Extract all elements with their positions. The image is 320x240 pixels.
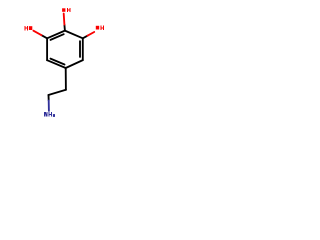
bond C2-OH left (red half): [33, 31, 41, 36]
bond C1-OH top (red half): [63, 14, 66, 25]
bond C3-C4 bottom-left (double, inner): [51, 59, 65, 65]
benzene ring: [47, 31, 83, 68]
label OH top: O: [62, 8, 65, 12]
label OH right: H: [101, 26, 104, 30]
bond C1-C6 top-right: [65, 31, 83, 39]
bond C6-C5 right edge (double, inner): [79, 41, 81, 57]
bond C5-C4 bottom-right: [66, 60, 83, 68]
bond C2-C3 left edge: [46, 38, 48, 60]
label HO left: O: [29, 26, 32, 30]
bond C6-C5 right edge (double, outer): [82, 38, 84, 60]
bond C6-OH right (black half): [83, 36, 88, 39]
bond C3-C4 bottom-left (double, outer): [47, 60, 66, 68]
bond C4-C7 chain vertical: [65, 68, 67, 90]
bond C8-N (black half): [48, 95, 50, 101]
bond C1-OH top (black half): [63, 25, 66, 31]
bond C8-N (blue half): [48, 101, 50, 111]
label NH2: subscript 2: [53, 114, 55, 117]
label HO left: H: [25, 26, 28, 30]
bond C7-C8 chain diagonal: [48, 90, 66, 95]
bond C6-OH right (red half): [88, 32, 95, 36]
bond C2-OH left (black half): [42, 35, 48, 38]
label OH right: O: [96, 26, 99, 30]
bond C1-C2 top-left (double, outer): [47, 31, 65, 39]
label OH top: H: [67, 8, 70, 12]
bond C1-C2 top-left (double, inner): [51, 34, 64, 40]
label NH2: H: [49, 112, 52, 117]
label NH2: N: [44, 112, 47, 117]
